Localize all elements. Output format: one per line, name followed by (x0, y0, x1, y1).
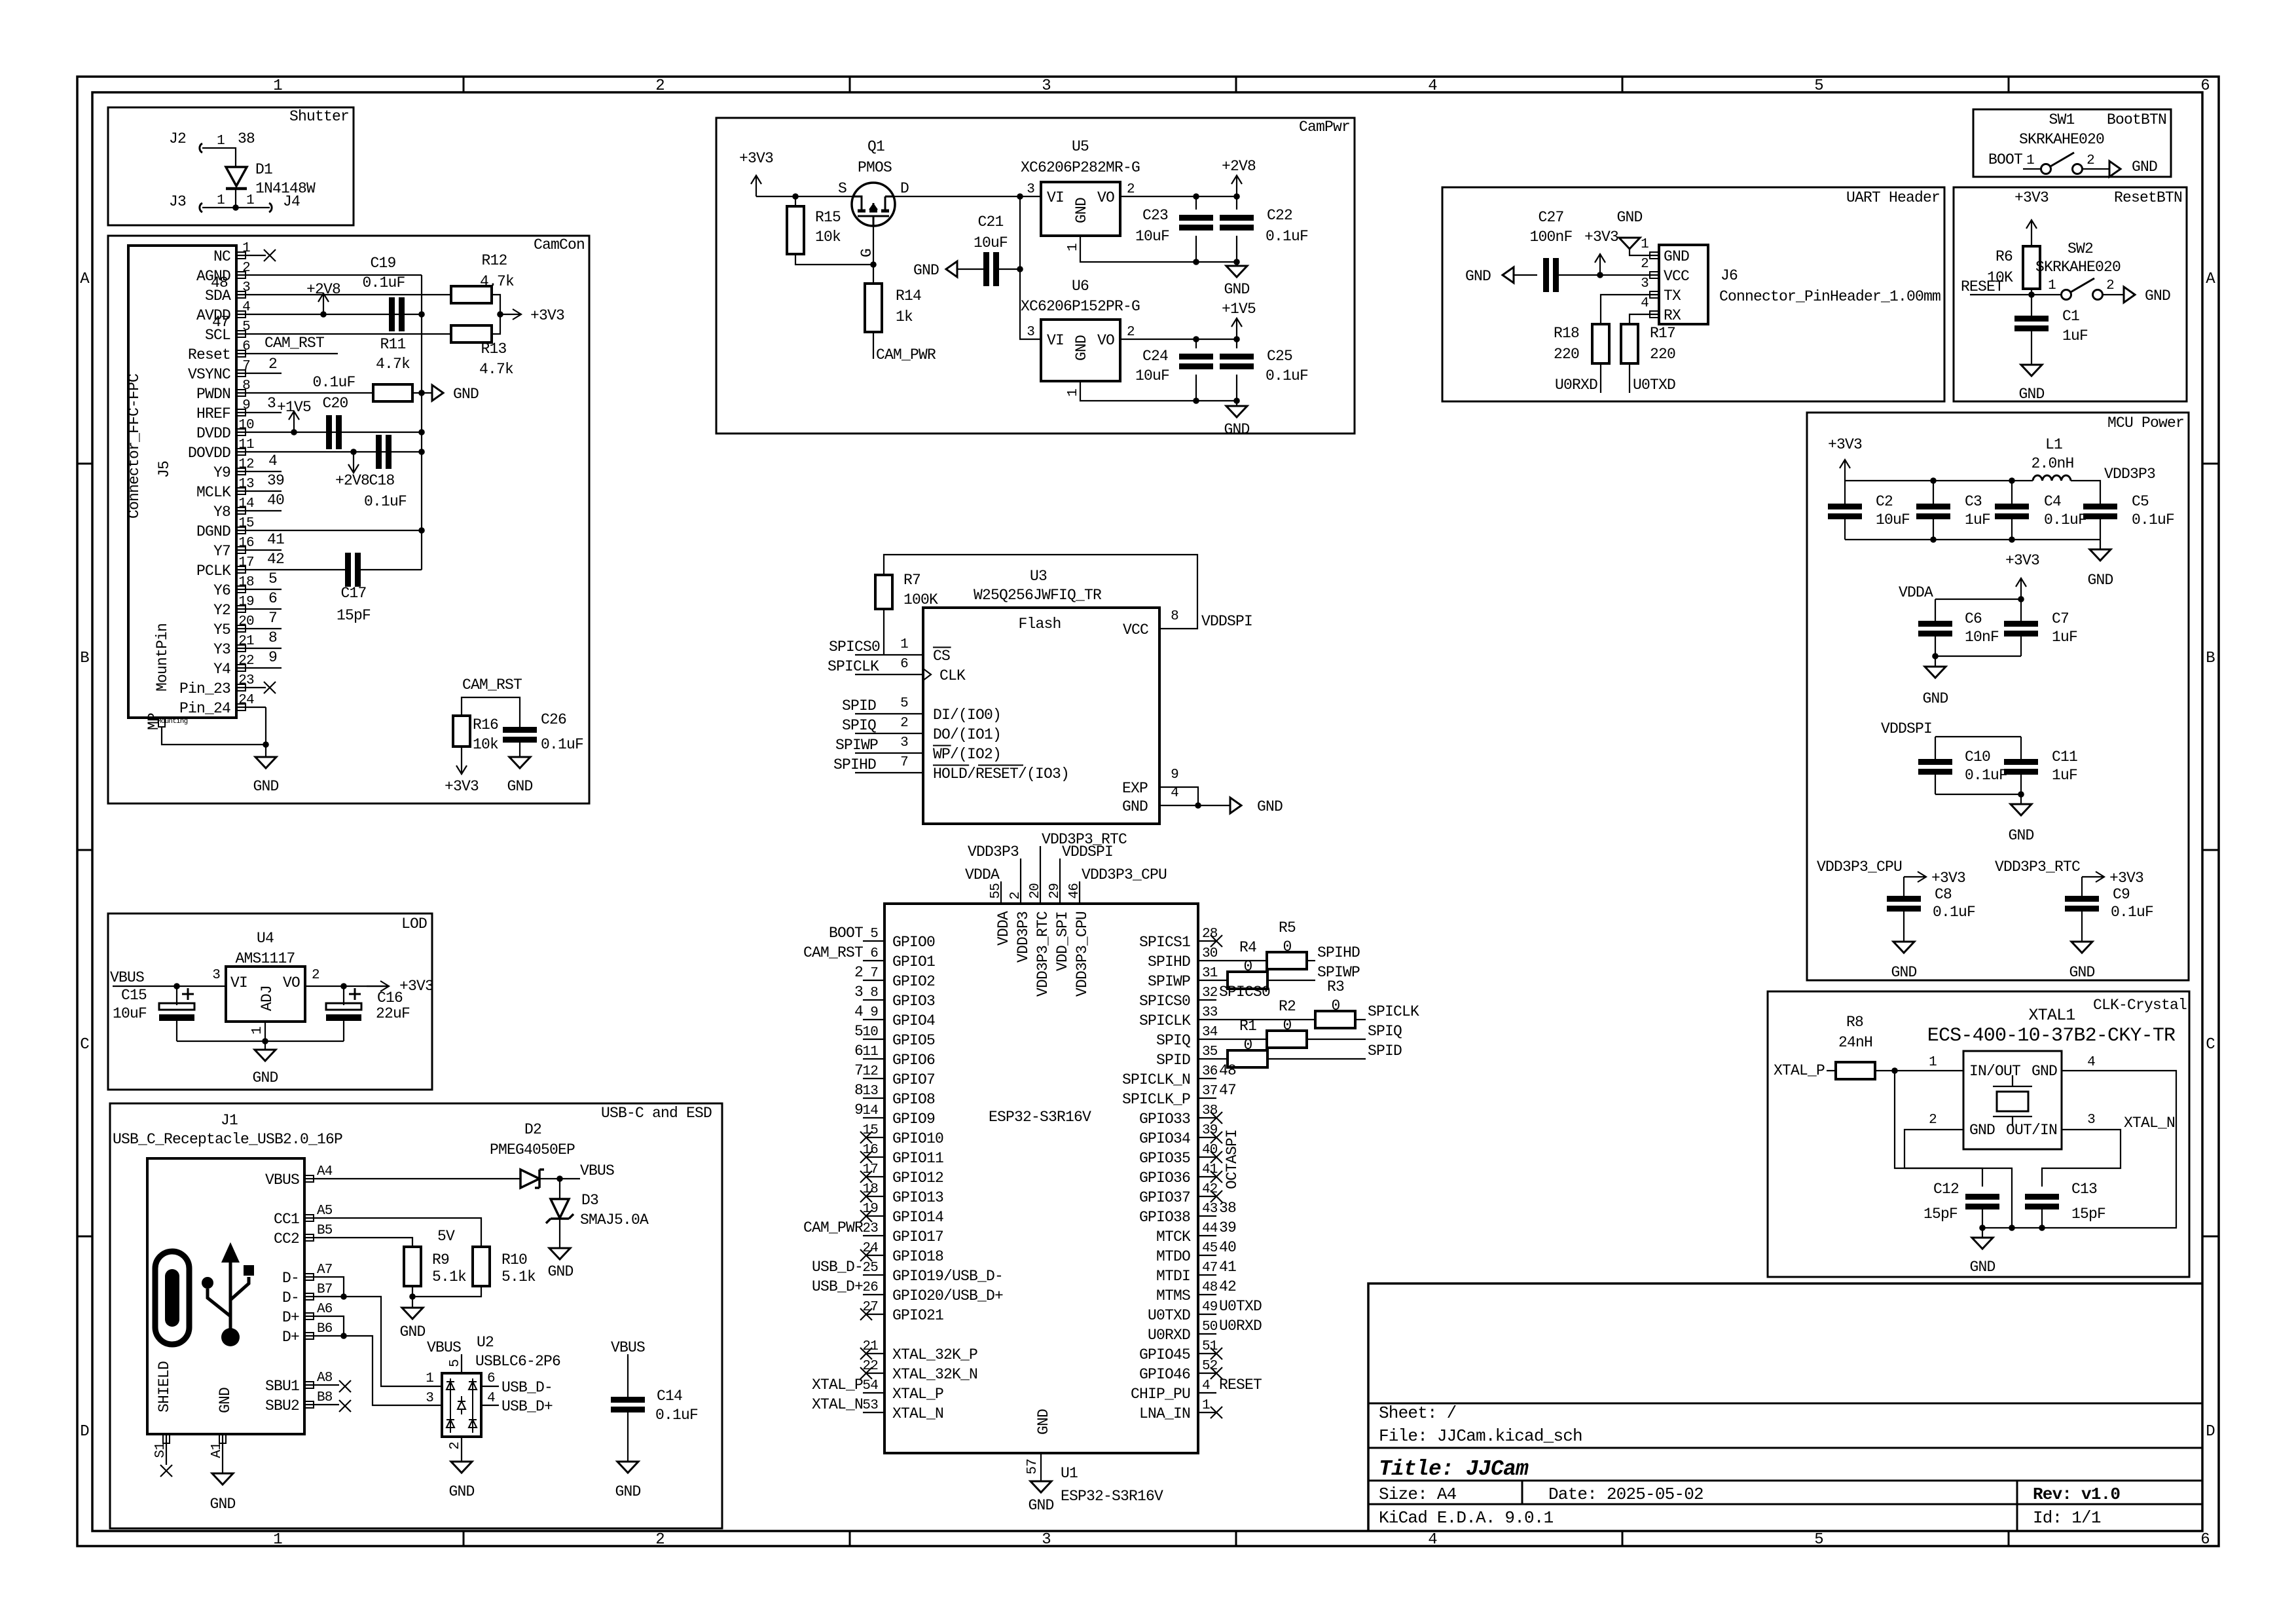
svg-text:D: D (900, 180, 909, 197)
svg-text:A: A (2206, 270, 2215, 288)
svg-text:PMOS: PMOS (858, 159, 892, 176)
svg-text:A8: A8 (317, 1371, 333, 1386)
svg-text:VDDA: VDDA (995, 911, 1012, 946)
svg-text:0: 0 (1243, 1037, 1252, 1054)
svg-text:100K: 100K (903, 591, 938, 608)
J1 shield pin S1 (163, 1434, 170, 1443)
svg-text:3: 3 (212, 968, 220, 983)
svg-text:Mounting: Mounting (157, 718, 188, 726)
ground GND lod (264, 1041, 266, 1050)
svg-text:4: 4 (1428, 77, 1437, 95)
wire SPIWP to WP pin3 (855, 752, 923, 754)
svg-text:B5: B5 (317, 1223, 333, 1238)
power +1V5 on DVDD (289, 411, 299, 432)
svg-text:3: 3 (426, 1391, 433, 1406)
svg-text:VBUS: VBUS (110, 969, 144, 986)
wire R11 to gnd (412, 392, 432, 394)
svg-text:GPIO36: GPIO36 (1139, 1170, 1190, 1187)
ground GND under J5 (265, 745, 266, 757)
svg-text:GND: GND (1224, 281, 1249, 298)
svg-text:0: 0 (1283, 938, 1291, 955)
svg-text:GND: GND (2018, 386, 2044, 403)
svg-text:40: 40 (1219, 1239, 1236, 1256)
svg-text:D: D (2206, 1423, 2215, 1441)
svg-text:R17: R17 (1650, 325, 1675, 342)
svg-text:GPIO34: GPIO34 (1139, 1130, 1190, 1147)
capacitor C14 0.1uF (611, 1397, 645, 1403)
svg-text:10uF: 10uF (1135, 367, 1169, 384)
svg-text:10uF: 10uF (974, 234, 1008, 251)
svg-text:CLK-Crystal: CLK-Crystal (2093, 997, 2187, 1014)
wire SPIQ to DO pin2 (855, 733, 923, 734)
node junction (232, 204, 239, 211)
svg-text:6: 6 (242, 339, 250, 354)
svg-text:SPIWP: SPIWP (1148, 973, 1190, 990)
svg-text:C25: C25 (1267, 348, 1292, 365)
svg-text:D+: D+ (282, 1329, 299, 1346)
svg-text:1: 1 (2026, 153, 2034, 168)
svg-text:RX: RX (1664, 307, 1681, 324)
wire U2 pin6 USB_D- (481, 1386, 499, 1387)
svg-text:ESP32-S3R16V: ESP32-S3R16V (989, 1109, 1091, 1126)
svg-text:USB_D-: USB_D- (812, 1259, 863, 1276)
capacitor C12 15pF (1965, 1194, 1999, 1200)
svg-text:SPICLK_P: SPICLK_P (1122, 1091, 1190, 1108)
svg-text:9: 9 (268, 649, 277, 666)
svg-text:C4: C4 (2044, 493, 2061, 510)
svg-text:GPIO14: GPIO14 (892, 1209, 943, 1226)
svg-text:CS: CS (933, 648, 950, 665)
svg-text:R18: R18 (1554, 325, 1579, 342)
wire VSYNC net 2 (266, 373, 282, 374)
ground GND arrow right (2124, 287, 2135, 303)
svg-text:1: 1 (2048, 278, 2056, 293)
wire +3V3 rail to Q1 (756, 196, 852, 197)
svg-text:D1: D1 (255, 161, 272, 178)
wire C17 to rail (360, 569, 422, 570)
svg-text:Shutter: Shutter (289, 108, 349, 125)
svg-text:MTMS: MTMS (1156, 1287, 1190, 1304)
svg-text:6: 6 (2200, 77, 2210, 95)
power +3V3 right arrow 2 (2082, 872, 2104, 882)
svg-text:A5: A5 (317, 1204, 333, 1219)
svg-text:26: 26 (862, 1280, 878, 1295)
U2 internal diodes (450, 1378, 473, 1433)
wire CC1 to R10 (315, 1218, 481, 1247)
svg-text:7: 7 (268, 610, 277, 627)
wire Y2 net 6 (266, 608, 282, 610)
wire U2 pin4 USB_D+ (481, 1405, 499, 1406)
svg-text:EXP: EXP (1122, 780, 1148, 797)
svg-text:3: 3 (242, 280, 250, 295)
resistor R6 10K (2023, 246, 2040, 289)
svg-text:U5: U5 (1072, 138, 1089, 155)
svg-text:TX: TX (1664, 287, 1681, 304)
capacitor C24 10uF (1195, 339, 1197, 348)
switch SW2 contacts (2062, 290, 2071, 300)
title block frame (1368, 1283, 2202, 1531)
svg-text:4: 4 (487, 1391, 495, 1406)
svg-text:47: 47 (1219, 1082, 1236, 1099)
svg-text:GND: GND (1073, 198, 1090, 223)
svg-text:VI: VI (1047, 332, 1064, 349)
wire AVDD (266, 314, 422, 315)
svg-text:GPIO10: GPIO10 (892, 1130, 943, 1147)
svg-text:Y4: Y4 (213, 661, 230, 678)
wire crystal pin4 gnd right (2042, 1071, 2176, 1228)
svg-text:VDD3P3: VDD3P3 (2104, 466, 2155, 483)
svg-text:13: 13 (238, 477, 254, 492)
svg-text:VDD3P3: VDD3P3 (968, 843, 1019, 860)
svg-text:D: D (80, 1423, 89, 1441)
svg-text:1: 1 (273, 1531, 282, 1549)
svg-text:GND: GND (1922, 690, 1948, 707)
svg-text:U0RXD: U0RXD (1219, 1318, 1262, 1335)
wire (202, 148, 236, 167)
svg-text:CamCon: CamCon (534, 236, 585, 253)
svg-text:1uF: 1uF (1965, 511, 1990, 528)
CLK-Crystal block box (1768, 991, 2189, 1277)
svg-text:100nF: 100nF (1529, 229, 1572, 246)
svg-text:GPIO33: GPIO33 (1139, 1111, 1190, 1128)
svg-text:VDDSPI: VDDSPI (1881, 720, 1932, 737)
svg-text:47: 47 (212, 314, 229, 331)
svg-text:USBLC6-2P6: USBLC6-2P6 (475, 1353, 560, 1370)
wire Q1 drain to U5 (894, 196, 1041, 197)
wire Y3 net 8 (266, 648, 282, 649)
svg-text:U1: U1 (1061, 1465, 1078, 1482)
capacitor C11 1uF (2020, 737, 2022, 760)
svg-text:55: 55 (989, 883, 1004, 899)
svg-text:2: 2 (1127, 325, 1135, 340)
wire C14 to gnd (627, 1412, 629, 1462)
svg-text:GPIO13: GPIO13 (892, 1189, 943, 1206)
svg-text:0.1uF: 0.1uF (312, 374, 355, 391)
wire C1 to gnd (2031, 331, 2032, 365)
svg-text:11: 11 (862, 1044, 878, 1060)
svg-text:0.1uF: 0.1uF (2111, 904, 2153, 921)
svg-text:R8: R8 (1846, 1014, 1863, 1031)
svg-text:C7: C7 (2052, 610, 2069, 627)
svg-text:10uF: 10uF (1876, 511, 1910, 528)
svg-text:USB_D+: USB_D+ (501, 1398, 553, 1415)
svg-text:GND: GND (1028, 1497, 1053, 1514)
power +2V8 down on DOVDD (348, 452, 359, 473)
svg-text:3: 3 (900, 735, 908, 750)
resistor R4 0 on SPIWP (1198, 980, 1228, 981)
svg-text:4: 4 (1171, 786, 1178, 801)
svg-text:XTAL_P: XTAL_P (1774, 1062, 1825, 1079)
svg-text:49: 49 (1202, 1300, 1218, 1315)
svg-text:VDD3P3_CPU: VDD3P3_CPU (1817, 858, 1902, 876)
regulator U5 XC6206P282MR-G (1041, 182, 1120, 236)
svg-text:GND: GND (2032, 1063, 2057, 1080)
svg-text:XTAL_32K_N: XTAL_32K_N (892, 1366, 977, 1383)
wire RX to R17 (1630, 314, 1659, 324)
svg-text:U6: U6 (1072, 278, 1089, 295)
svg-text:5: 5 (448, 1359, 463, 1367)
wire U6 GND pin1 (1080, 381, 1237, 401)
svg-text:D-: D- (282, 1289, 299, 1306)
power +1V5 (1231, 318, 1242, 339)
svg-text:R7: R7 (903, 572, 920, 589)
capacitor C26 0.1uF (503, 727, 537, 733)
MCU Power block box (1807, 413, 2189, 980)
svg-text:41: 41 (1219, 1259, 1236, 1276)
svg-text:C16: C16 (377, 989, 403, 1006)
svg-text:GPIO5: GPIO5 (892, 1032, 935, 1049)
svg-text:VDDA: VDDA (1899, 584, 1933, 601)
svg-text:GPIO21: GPIO21 (892, 1307, 943, 1324)
wire crystal pin2 gnd left (1904, 1130, 2012, 1228)
svg-text:1uF: 1uF (2052, 767, 2077, 784)
wire gate node (873, 226, 874, 284)
power +3V3 (751, 175, 761, 196)
svg-text:GND: GND (1664, 248, 1689, 265)
wire VBUS to VI (113, 986, 226, 987)
svg-text:SPIHD: SPIHD (1317, 944, 1360, 961)
wire PCLK (266, 569, 346, 570)
USB-C and ESD block box (110, 1103, 722, 1528)
svg-text:+3V3: +3V3 (1931, 870, 1965, 887)
resistor R7 100K (875, 575, 892, 609)
svg-text:6: 6 (900, 657, 908, 672)
svg-text:48: 48 (211, 274, 228, 291)
wire R9 R10 to gnd (412, 1286, 413, 1308)
svg-text:R6: R6 (1995, 248, 2013, 265)
wire XTAL_P to R8 (1827, 1070, 1836, 1071)
svg-text:VDD3P3_CPU: VDD3P3_CPU (1074, 912, 1091, 997)
svg-text:GPIO8: GPIO8 (892, 1091, 935, 1108)
svg-text:30: 30 (1202, 946, 1218, 961)
net label VDDA (1000, 881, 1002, 904)
svg-text:10k: 10k (473, 736, 498, 753)
svg-text:DGND: DGND (196, 523, 230, 540)
resistor R3 0 on SPICLK (1198, 1019, 1315, 1020)
wire CC2 to R9 (315, 1238, 412, 1247)
resistor R18 220 (1592, 324, 1609, 363)
wire U5 VO to +2V8 (1120, 196, 1237, 197)
svg-text:3: 3 (1641, 276, 1649, 291)
svg-text:C10: C10 (1965, 748, 1990, 766)
svg-text:SKRKAHE020: SKRKAHE020 (2035, 259, 2121, 276)
wire VDDSPI top rail (884, 555, 1197, 629)
svg-text:1: 1 (217, 134, 225, 149)
svg-text:41: 41 (267, 531, 284, 548)
wire gnd rail lod (177, 1041, 344, 1042)
svg-text:0.1uF: 0.1uF (655, 1407, 698, 1424)
capacitor C20 0.1uF on DVDD (326, 415, 332, 449)
svg-text:S: S (838, 180, 847, 197)
LOD block box (108, 913, 432, 1090)
svg-text:A7: A7 (317, 1263, 333, 1278)
svg-text:J2: J2 (169, 130, 186, 147)
wire VBUS to C14 (627, 1354, 629, 1397)
wire D2 to VBUS net (539, 1178, 580, 1179)
svg-text:42: 42 (1219, 1278, 1236, 1295)
ground GND under D3 (549, 1248, 570, 1259)
svg-text:3: 3 (854, 984, 863, 1001)
crystal element symbol (1993, 1075, 2032, 1126)
svg-text:1: 1 (1066, 244, 1081, 251)
capacitor C10 0.1uF (1935, 737, 1936, 760)
svg-text:SPIQ: SPIQ (1156, 1032, 1190, 1049)
svg-text:1: 1 (900, 637, 908, 652)
wire SDA (266, 294, 451, 295)
svg-text:R3: R3 (1327, 978, 1344, 995)
net label VDD3P3_RTC into U1 (1040, 846, 1041, 904)
wire D3 to gnd (559, 1219, 560, 1248)
wire crystal pin3 XTAL_N (2042, 1130, 2121, 1187)
resistor R1 0 on SPID (1198, 1058, 1228, 1060)
svg-text:VCC: VCC (1664, 268, 1689, 285)
svg-text:1: 1 (1929, 1055, 1937, 1070)
svg-text:SPICLK: SPICLK (1368, 1003, 1419, 1020)
wire gnd rail xtal (1982, 1227, 2042, 1228)
wire U6 VO to +1V5 (1120, 339, 1237, 340)
wire SPICLK to CLK pin6 (855, 674, 923, 675)
svg-text:0: 0 (1283, 1017, 1291, 1034)
svg-text:GND: GND (1891, 964, 1916, 981)
svg-text:Y3: Y3 (213, 641, 230, 658)
svg-text:3: 3 (1042, 77, 1051, 95)
svg-text:Connector_PinHeader_1.00mm: Connector_PinHeader_1.00mm (1719, 288, 1941, 305)
svg-text:MTDO: MTDO (1156, 1248, 1190, 1265)
ResetBTN block box (1954, 187, 2187, 401)
svg-text:J3: J3 (169, 193, 186, 210)
connector J4 (269, 203, 272, 212)
svg-text:R9: R9 (432, 1251, 449, 1268)
svg-text:Pin_24: Pin_24 (179, 700, 230, 717)
svg-text:C23: C23 (1142, 207, 1168, 224)
svg-text:C12: C12 (1933, 1181, 1959, 1198)
svg-text:12: 12 (238, 457, 254, 472)
wire R15 to gate (795, 254, 873, 265)
svg-text:LNA_IN: LNA_IN (1139, 1405, 1190, 1422)
svg-text:3: 3 (2087, 1113, 2095, 1128)
svg-text:GPIO38: GPIO38 (1139, 1209, 1190, 1226)
svg-text:GPIO37: GPIO37 (1139, 1189, 1190, 1206)
svg-text:GND: GND (210, 1496, 235, 1513)
svg-text:GPIO2: GPIO2 (892, 973, 935, 990)
svg-text:1: 1 (1066, 389, 1081, 397)
svg-text:GPIO17: GPIO17 (892, 1228, 943, 1246)
svg-text:4: 4 (2087, 1055, 2095, 1070)
svg-text:13: 13 (862, 1084, 878, 1099)
wire R18 to U0RXD (1600, 363, 1601, 393)
svg-text:GND: GND (2069, 964, 2094, 981)
svg-text:+3V3: +3V3 (2109, 870, 2143, 887)
wire VI vertical (1020, 196, 1041, 339)
wire Y8 net 40 (266, 510, 282, 511)
svg-text:8: 8 (854, 1082, 863, 1099)
svg-text:5: 5 (1814, 1531, 1823, 1549)
svg-text:R13: R13 (481, 341, 506, 358)
svg-text:GND: GND (2008, 827, 2033, 844)
svg-text:2: 2 (655, 1531, 665, 1549)
wire R8 node down to C12 (1895, 1071, 1982, 1187)
svg-text:HOLD/RESET/(IO3): HOLD/RESET/(IO3) (933, 766, 1069, 783)
svg-text:23: 23 (238, 673, 254, 688)
capacitor C16 22uF polarized (343, 986, 344, 1005)
svg-text:BOOT: BOOT (1988, 151, 2022, 168)
svg-text:VSYNC: VSYNC (188, 366, 230, 383)
capacitor C21 10uF (957, 268, 983, 270)
svg-text:12: 12 (862, 1064, 878, 1079)
svg-text:R10: R10 (501, 1251, 527, 1268)
svg-text:U0TXD: U0TXD (1633, 377, 1675, 394)
svg-text:6: 6 (870, 946, 878, 961)
no-connect Pin_23 (264, 682, 276, 693)
svg-text:3: 3 (1027, 182, 1034, 197)
svg-text:0.1uF: 0.1uF (2132, 511, 2174, 528)
svg-text:PMEG4050EP: PMEG4050EP (490, 1141, 575, 1158)
svg-text:16: 16 (238, 536, 254, 551)
svg-text:Reset: Reset (188, 346, 230, 363)
svg-text:SPICS0: SPICS0 (1139, 993, 1190, 1010)
wire Y9 net 4 (266, 471, 282, 472)
J1 pin A1 GND (219, 1434, 226, 1443)
svg-text:1: 1 (1202, 1398, 1210, 1413)
svg-text:0.1uF: 0.1uF (1933, 904, 1975, 921)
svg-text:SW2: SW2 (2068, 240, 2093, 257)
svg-text:CAM_RST: CAM_RST (264, 335, 324, 352)
svg-text:XC6206P282MR-G: XC6206P282MR-G (1021, 159, 1140, 176)
svg-text:5: 5 (268, 570, 277, 587)
svg-text:VDD3P3_RTC: VDD3P3_RTC (1995, 858, 2080, 876)
svg-text:GND: GND (1465, 268, 1491, 285)
svg-text:R16: R16 (473, 716, 498, 733)
svg-text:DOVDD: DOVDD (188, 445, 230, 462)
svg-text:+2V8: +2V8 (335, 472, 369, 489)
svg-text:CAM_RST: CAM_RST (462, 676, 522, 693)
svg-text:XTAL_N: XTAL_N (2124, 1115, 2175, 1132)
svg-text:2: 2 (1008, 892, 1023, 900)
wire Reset / CAM_RST (266, 353, 338, 354)
svg-text:5.1k: 5.1k (501, 1268, 536, 1285)
svg-text:14: 14 (862, 1103, 878, 1118)
resistor R16 10k (453, 716, 470, 747)
svg-text:46: 46 (1067, 883, 1082, 899)
svg-text:14: 14 (238, 496, 254, 511)
wire AGND to gnd rail (266, 274, 422, 276)
svg-text:A1: A1 (210, 1443, 225, 1458)
svg-text:R12: R12 (481, 252, 507, 269)
svg-text:+3V3: +3V3 (1584, 229, 1618, 246)
svg-text:GND: GND (1616, 209, 1642, 226)
svg-text:CAM_PWR: CAM_PWR (876, 346, 936, 363)
svg-text:2: 2 (268, 356, 277, 373)
svg-text:Y2: Y2 (213, 602, 230, 619)
wire gnd rail (1845, 539, 2100, 540)
svg-text:2: 2 (655, 77, 665, 95)
svg-text:VO: VO (1097, 189, 1114, 206)
svg-text:SPID: SPID (842, 697, 876, 714)
svg-text:DI/(IO0): DI/(IO0) (933, 707, 1001, 724)
wire PWDN (266, 392, 373, 394)
svg-text:GND: GND (1969, 1259, 1995, 1276)
svg-text:VO: VO (1097, 332, 1114, 349)
svg-text:PCLK: PCLK (196, 563, 231, 580)
Shutter block box (108, 107, 354, 225)
svg-text:+3V3: +3V3 (530, 307, 564, 324)
capacitor C22 0.1uF (1236, 196, 1237, 210)
svg-text:GPIO4: GPIO4 (892, 1012, 935, 1029)
svg-text:33: 33 (1202, 1005, 1218, 1020)
inductor L1 2.0nH (2033, 475, 2071, 481)
wire HREF net 3 (266, 412, 282, 413)
svg-text:+3V3: +3V3 (399, 978, 433, 995)
